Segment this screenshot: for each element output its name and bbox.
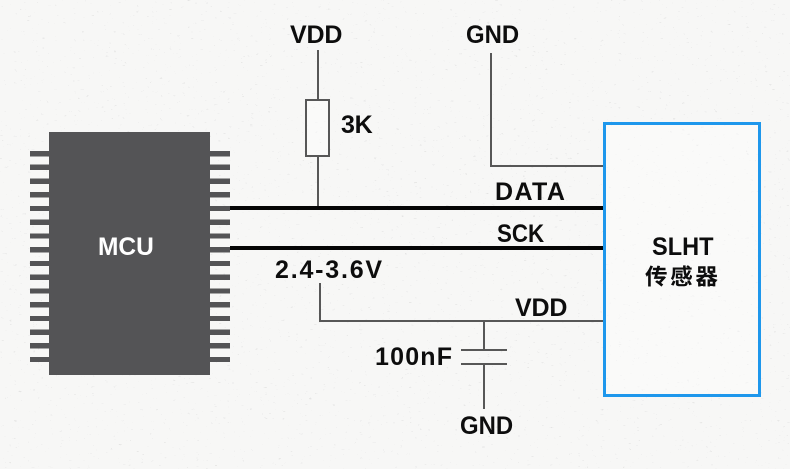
capacitor C1 top lead [483, 322, 485, 349]
node VDD (pull-up supply) label [290, 21, 342, 50]
capacitor C1 top plate [461, 349, 507, 351]
MCU U1 label [98, 233, 154, 262]
node GND (bottom) label [460, 412, 513, 441]
MCU U1 body [49, 132, 210, 375]
wire GND vertical [490, 53, 492, 167]
net label SCK [497, 220, 544, 249]
capacitor C1 bottom lead [483, 365, 485, 409]
capacitor C1 bottom plate [461, 363, 507, 365]
sensor U2 label SLHT [652, 233, 713, 262]
resistor R1 body [305, 99, 330, 157]
wire VDD rail to sensor [319, 320, 603, 322]
node GND (top) label [466, 21, 519, 50]
wire SCK bus (thick) [230, 246, 603, 250]
sensor U2 label chuangangqi (CJK glyph outlines) [645, 263, 720, 288]
sensor U2 SLHT box [603, 122, 761, 397]
wire GND horizontal to sensor [490, 165, 604, 167]
MCU U1 left pins [30, 151, 50, 363]
resistor R1 value 3K [341, 111, 372, 140]
supply label 2.4-3.6V [275, 256, 384, 285]
MCU U1 right pins [210, 151, 230, 363]
net label VDD (sensor supply) [515, 294, 567, 323]
wire supply drop [319, 283, 321, 322]
wire resistor R1 to DATA bus [317, 157, 319, 206]
net label DATA [495, 178, 566, 207]
wire DATA bus (thick) [230, 206, 603, 210]
wire VDD label to resistor R1 [317, 50, 319, 100]
capacitor C1 value 100nF [375, 343, 453, 372]
